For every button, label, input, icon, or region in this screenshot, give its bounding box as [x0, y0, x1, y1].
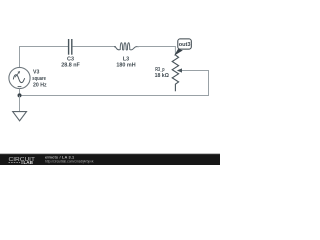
wire: left vertical + top rail to C3 — [20, 47, 69, 68]
wire: C3 to L3 — [72, 46, 116, 48]
svg-text:20 Hz: 20 Hz — [33, 82, 47, 88]
svg-text:out3: out3 — [179, 42, 191, 48]
ground symbol — [13, 112, 27, 121]
capacitor C3 — [69, 39, 72, 55]
wire: wiper down right side — [208, 71, 210, 97]
svg-text:V3: V3 — [33, 70, 39, 76]
potentiometer R3_p zigzag — [172, 55, 178, 91]
V3 sine glyph — [13, 75, 24, 83]
junction node dot — [18, 93, 22, 97]
net flag out3 box — [178, 39, 192, 49]
wire: source bottom to junction — [19, 89, 21, 96]
svg-text:square: square — [32, 76, 46, 82]
svg-text:18 kΩ: 18 kΩ — [155, 73, 169, 79]
svg-text:≡LAB: ≡LAB — [21, 160, 34, 165]
voltage source V3 circle — [9, 67, 30, 88]
V3 arrow glyph — [15, 71, 20, 77]
svg-text:http://circuitlab.com/cmsdlj4r: http://circuitlab.com/cmsdlj4rbpvk — [45, 160, 94, 164]
V3 minus sign — [18, 86, 22, 88]
wire: bottom rail — [20, 95, 210, 97]
wiper arrow of R3_p — [177, 68, 209, 72]
svg-text:28.8 nF: 28.8 nF — [61, 63, 80, 69]
wire: L3 to node out3 with bend down to pot — [137, 47, 175, 56]
svg-text:180 mH: 180 mH — [116, 63, 135, 69]
watermark bar — [0, 154, 220, 165]
net flag out3 tail — [174, 49, 183, 56]
inductor L3 — [114, 43, 139, 50]
wire: junction to ground — [19, 96, 21, 112]
